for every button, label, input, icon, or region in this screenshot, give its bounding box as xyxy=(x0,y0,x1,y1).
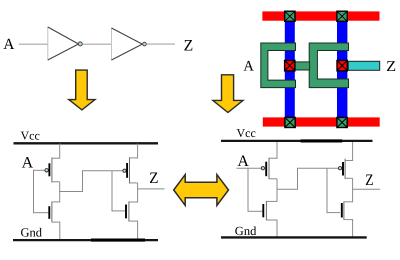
svg-text:Gnd: Gnd xyxy=(21,226,43,240)
right schematic: NMOS Q6 xyxy=(263,201,277,221)
left schematic: wire tap up xyxy=(82,171,84,192)
left schematic: node A vertical wire xyxy=(33,170,35,213)
svg-text:Z: Z xyxy=(149,170,158,187)
svg-text:A: A xyxy=(3,36,15,53)
right schematic: Gnd rail xyxy=(221,236,367,238)
layout: via V1 (top-left green X) xyxy=(285,11,295,21)
arrow equivalence (double-headed) xyxy=(174,175,229,206)
svg-text:Z: Z xyxy=(386,59,396,75)
left schematic: PMOS Q3 xyxy=(123,144,138,184)
left schematic: Gnd rail thick segment xyxy=(91,239,145,242)
right schematic: Vcc rail thick segment xyxy=(301,139,343,142)
right schematic: wire Q7 drain down xyxy=(352,178,354,202)
right schematic: wire drain tap horizontal xyxy=(277,188,298,190)
left schematic: Vcc rail xyxy=(14,142,159,144)
left schematic: NMOS Q4 xyxy=(126,201,138,221)
svg-text:A: A xyxy=(237,153,249,170)
layout: metal column M2 (blue) xyxy=(337,21,347,118)
left schematic: wire Q3 drain down xyxy=(137,183,139,203)
svg-text:Z: Z xyxy=(184,37,194,54)
left schematic: wire output Z xyxy=(138,188,165,190)
layout: poly gate G1 (green bracket) xyxy=(261,43,296,88)
layout: contact C1 (red X) xyxy=(285,60,295,71)
arrow layout-to-transistor xyxy=(213,75,243,113)
svg-text:Vcc: Vcc xyxy=(237,126,256,140)
layout: via V3 (bottom-left green X) xyxy=(285,117,295,127)
svg-text:Vcc: Vcc xyxy=(21,128,40,142)
wire A to U1 xyxy=(19,43,48,45)
svg-text:Z: Z xyxy=(365,172,373,189)
right schematic: Vcc rail xyxy=(221,140,373,142)
right schematic: wire junction down to NMOS Q8 gate xyxy=(326,168,328,213)
layout: contact C2 (red X) xyxy=(337,60,347,71)
right schematic: wire Q6 source to Gnd xyxy=(276,220,278,238)
inverter U2 xyxy=(112,28,147,61)
svg-text:A: A xyxy=(243,59,254,75)
layout: Gnd metal rail (bottom red) xyxy=(263,117,380,126)
left schematic: wire Q2 source to Gnd xyxy=(59,222,61,240)
left schematic: wire A to PMOS Q1 gate xyxy=(34,169,45,171)
right schematic: PMOS Q5 xyxy=(261,142,277,179)
arrow schematic-to-transistor xyxy=(69,70,95,110)
wire U2 to Z xyxy=(146,43,175,45)
wire U1 to U2 xyxy=(82,43,111,45)
layout: output metal Z (cyan) xyxy=(348,61,380,70)
right schematic: wire to PMOS Q7 gate xyxy=(297,167,338,169)
left schematic: wire Q4 source to Gnd xyxy=(137,221,139,240)
left schematic: wire to PMOS Q3 gate xyxy=(82,170,123,172)
layout: Vdd metal rail (top red) xyxy=(262,11,379,20)
left schematic: PMOS Q1 xyxy=(45,144,60,183)
right schematic: wire output Z xyxy=(353,188,381,190)
right schematic: wire A to PMOS Q5 gate xyxy=(237,167,262,169)
left schematic: wire to NMOS Q4 gate horizontal xyxy=(112,210,125,212)
right schematic: PMOS Q7 xyxy=(339,142,353,179)
right schematic: node A vertical wire xyxy=(247,168,249,212)
left schematic: Gnd rail xyxy=(13,239,158,241)
right schematic: NMOS Q8 xyxy=(342,201,353,220)
left schematic: wire junction down to NMOS Q4 gate xyxy=(111,171,113,212)
inverter U1 xyxy=(48,27,83,61)
layout: poly connector (green) xyxy=(294,62,310,70)
right schematic: wire Q8 source to Gnd xyxy=(352,219,354,238)
right schematic: wire to NMOS Q8 gate horizontal xyxy=(327,212,340,214)
layout: metal column M1 (blue) xyxy=(285,21,295,118)
left schematic: wire drain tap horizontal xyxy=(59,191,82,193)
svg-text:Gnd: Gnd xyxy=(235,224,257,238)
layout: poly gate G2 (green bracket) xyxy=(309,43,348,88)
left schematic: wire A to NMOS Q2 gate xyxy=(34,212,49,214)
left schematic: wire Q1 drain down xyxy=(59,182,61,203)
right schematic: wire A to NMOS Q6 gate xyxy=(248,210,262,212)
right schematic: wire tap up xyxy=(297,168,299,190)
layout: via V2 (top-right green X) xyxy=(337,11,347,21)
svg-text:A: A xyxy=(22,155,34,172)
right schematic: wire Q5 drain down xyxy=(276,179,278,202)
layout: via V4 (bottom-right green X) xyxy=(337,117,347,127)
left schematic: NMOS Q2 xyxy=(49,202,60,223)
